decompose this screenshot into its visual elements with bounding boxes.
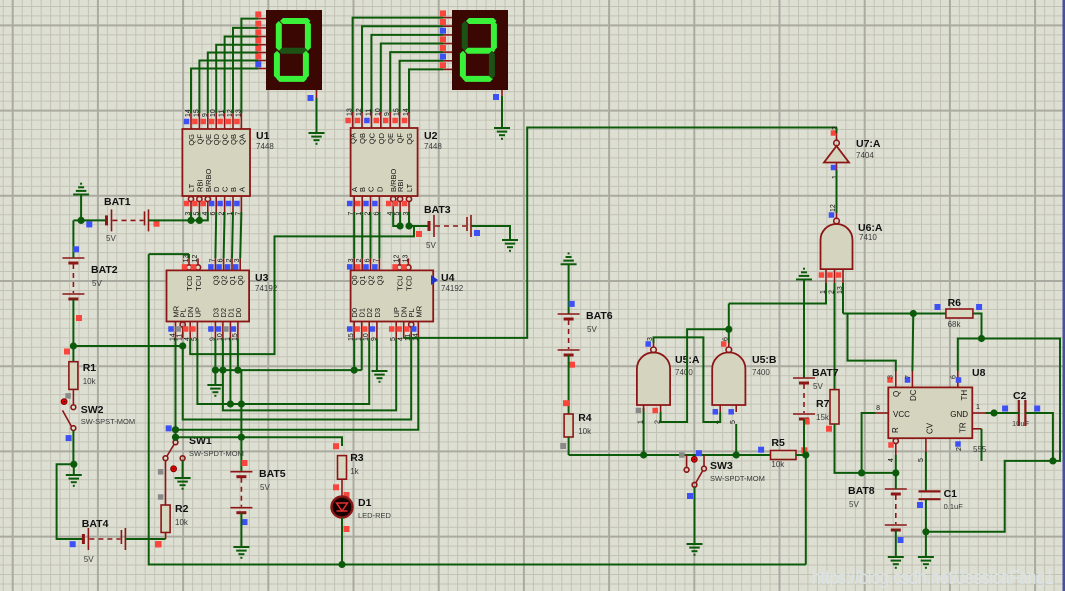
wire GND to C2 (986, 412, 1016, 414)
U3 bottom pins MR PL DN UP D3-D0 (175, 322, 177, 339)
wire DC column from R6 junction (911, 314, 914, 372)
svg-text:11: 11 (177, 334, 184, 341)
node U3 D3 junction (212, 367, 219, 374)
svg-text:74192: 74192 (441, 284, 464, 293)
wire ground stub to rail (80, 195, 82, 221)
svg-text:5V: 5V (426, 241, 436, 250)
node BAT8/R junction (892, 469, 899, 476)
svg-text:D1: D1 (358, 497, 372, 509)
svg-text:555: 555 (973, 445, 987, 454)
wire U4 D1 down (361, 339, 363, 371)
U7:A pin2 marker (831, 130, 837, 136)
svg-text:BAT2: BAT2 (91, 264, 118, 276)
svg-text:SW2: SW2 (81, 404, 104, 416)
svg-text:TCU: TCU (194, 275, 203, 290)
555 pin GND(1) right (972, 412, 985, 414)
svg-text:SW-SPST-MOM: SW-SPST-MOM (81, 417, 135, 426)
wire U3 DN to riser (190, 226, 414, 354)
wire R3 bottom to LED D1 (341, 479, 343, 496)
svg-text:10k: 10k (771, 460, 785, 469)
wire B/RBO jog to rail (199, 212, 207, 220)
wire U3 MR down to SW1 rail (175, 339, 177, 430)
svg-text:6: 6 (951, 375, 958, 379)
wire R5 right to BAT7 column (796, 454, 806, 456)
svg-text:R1: R1 (83, 362, 97, 374)
svg-text:CV: CV (926, 422, 935, 434)
ground below DISP1 (309, 132, 325, 134)
node U5:A pin1 junction (640, 451, 647, 458)
U6:A input pins 1 2 13 (825, 269, 827, 283)
battery BAT5 (230, 471, 252, 473)
svg-text:GND: GND (950, 410, 968, 419)
wire BAT8 bottom to ground (895, 530, 897, 557)
U4 bottom pins D0-D3 UP DN PL MR (353, 322, 355, 339)
ground (inverted) above BAT7 (796, 279, 812, 281)
wire BAT1 rail left corner to BAT2 column (73, 219, 81, 221)
wire rail430 U3 MR to U4 MR (176, 339, 419, 430)
555 pin DC(7) top (911, 371, 913, 387)
svg-text:LED-RED: LED-RED (358, 511, 392, 520)
wire BAT2 column from BAT1 rail (72, 220, 74, 258)
wire BAT7 bottom to R5 junction (803, 419, 805, 455)
svg-text:BAT1: BAT1 (104, 196, 131, 208)
svg-text:MR: MR (414, 305, 423, 317)
wire rail to BAT3 (409, 225, 429, 227)
svg-text:C2: C2 (1013, 390, 1027, 402)
wire D1 cathode to bottom rail (341, 518, 343, 565)
wire left bus down to bottom rail (149, 254, 342, 564)
svg-text:R4: R4 (578, 412, 592, 424)
IC U4 body (351, 270, 434, 321)
wire C2 right to loop (1025, 413, 1053, 461)
svg-text:C: C (367, 186, 376, 192)
node D0/BAT5-column on rail404 (238, 400, 245, 407)
svg-text:15k: 15k (816, 413, 830, 422)
svg-text:R2: R2 (175, 503, 189, 515)
wire C1 to ground (925, 532, 927, 557)
U4 top pins Q0-Q3 TCU TCD (353, 258, 355, 270)
svg-text:7404: 7404 (856, 151, 874, 160)
wire lower loop to C1 junction (926, 461, 1053, 532)
wire U6 pin2 through R7 (834, 283, 836, 390)
svg-text:3: 3 (348, 258, 355, 262)
svg-text:VCC: VCC (893, 410, 910, 419)
svg-text:U2: U2 (424, 130, 438, 142)
wire CV to C1 (925, 452, 927, 491)
svg-text:1: 1 (638, 420, 645, 424)
U5:A input pins 1,2 (643, 405, 645, 412)
wire U5:B output cross to U5:A input2 (661, 329, 729, 422)
wire rail455 (569, 454, 771, 456)
svg-text:10: 10 (375, 108, 382, 116)
svg-text:10k: 10k (175, 518, 189, 527)
wire U5:A output to U5:B input4 (654, 337, 721, 422)
wire rail370 D-pins (215, 369, 361, 371)
battery BAT3 (428, 221, 431, 231)
node D1-column on rail404 (227, 400, 234, 407)
ground below U4 D3 (372, 370, 388, 372)
wire U3 D3 to rail370 and ground (214, 339, 216, 386)
svg-text:R7: R7 (816, 398, 830, 410)
555 pin TH(6) top (957, 371, 959, 387)
svg-text:4: 4 (888, 458, 895, 462)
node SW2/ground/BAT4 junction (70, 461, 77, 468)
wire U6 pin13 down (842, 283, 844, 314)
resistor R5 (771, 451, 797, 460)
node BAT1 rail / ground junction (78, 217, 85, 224)
node C2-right loop junction (1049, 457, 1056, 464)
wire bottom rail right section (342, 564, 806, 566)
node U1 RBI junction (196, 217, 203, 224)
svg-text:12: 12 (394, 255, 401, 263)
svg-text:A: A (237, 187, 246, 192)
U5:B input pins 4,5 (719, 405, 721, 412)
wire U2 B/RBO jog (393, 212, 400, 226)
wire U5:B pin5 down to rail455 (735, 424, 737, 455)
svg-text:TH: TH (960, 390, 969, 401)
ground right of BAT3 (502, 239, 518, 241)
svg-text:5V: 5V (813, 382, 823, 391)
wire staircase U2 outputs to DISP2 (353, 18, 443, 113)
wire U5:A pin1 down to rail455 (643, 408, 645, 455)
wire R6 right loop down (973, 314, 982, 339)
svg-text:BAT6: BAT6 (586, 310, 613, 322)
node SW1 column on rail437 (172, 434, 179, 441)
svg-text:SW3: SW3 (710, 460, 733, 472)
wire U3 D2 to rail370 (222, 339, 224, 371)
ground below DISP2 (494, 127, 510, 129)
wire U3 D0 to rail404 (237, 339, 239, 371)
wire BAT3 right to ground (471, 226, 510, 240)
svg-text:D0: D0 (234, 308, 243, 318)
svg-text:7: 7 (209, 258, 216, 262)
svg-text:1: 1 (976, 404, 980, 411)
7-segment display DISP1 (266, 10, 322, 90)
svg-text:3: 3 (234, 258, 241, 262)
svg-text:5V: 5V (260, 483, 270, 492)
IC U3 body (167, 270, 250, 321)
svg-text:C1: C1 (944, 488, 958, 500)
svg-text:U8: U8 (972, 367, 986, 379)
wire U7 output to top-left bus (836, 128, 838, 134)
wire R1 bottom to SW2 (72, 389, 74, 404)
555 pin VCC(8) left (875, 412, 888, 414)
svg-text:7448: 7448 (256, 142, 274, 151)
U1 bottom pins LT RBI B/RBO D C B A (188, 196, 193, 201)
inverter U7:A (824, 146, 849, 163)
svg-text:U5:B: U5:B (752, 354, 777, 366)
svg-text:5V: 5V (84, 555, 94, 564)
ground below BAT5 (233, 546, 249, 548)
node U5:B output junction (725, 326, 732, 333)
ground (inverted) above BAT1 rail (73, 194, 89, 196)
LED D1 (332, 497, 353, 518)
svg-text:9: 9 (202, 113, 209, 117)
switch SW1 SW-SPDT-MOM (166, 425, 172, 431)
svg-text:12: 12 (227, 109, 234, 117)
555 pin R(4) bottom with bubble (893, 438, 898, 443)
node R6 rail junction (910, 310, 917, 317)
svg-text:BAT4: BAT4 (82, 518, 109, 530)
svg-text:LT: LT (405, 183, 414, 192)
svg-text:13: 13 (347, 108, 354, 116)
node U5:B pin5 junction (733, 451, 740, 458)
svg-text:2: 2 (226, 258, 233, 262)
wire rail419 U3 PL to U4 PL (183, 339, 412, 420)
node U3 PL column junction (179, 342, 186, 349)
wire U5:B output up (728, 304, 730, 344)
node U3 D0 junction (234, 367, 241, 374)
ground (inverted) above BAT6 (561, 263, 577, 265)
display DISP2 bottom pin to ground (501, 90, 503, 96)
resistor R6 (946, 309, 973, 318)
svg-text:TCU: TCU (396, 275, 405, 290)
U6:A output pin12 marker (829, 212, 835, 218)
wire BAT2 bottom to PL rail junction (72, 299, 74, 346)
svg-text:7400: 7400 (752, 368, 770, 377)
wire U5:B output to U6 pin1 (729, 283, 826, 304)
svg-text:QF: QF (396, 133, 405, 144)
svg-text:7410: 7410 (859, 233, 877, 242)
U5:B output pin6 marker (721, 341, 727, 347)
node U3 D2 junction (219, 367, 226, 374)
svg-text:QC: QC (367, 132, 376, 144)
svg-text:6: 6 (365, 258, 372, 262)
node U2 RBI junction (397, 222, 404, 229)
svg-text:11: 11 (219, 110, 226, 117)
capacitor C2 (1018, 400, 1020, 426)
wire R pin to rail (895, 455, 897, 473)
wire C1 bottom to corner rail (925, 499, 927, 532)
svg-text:5: 5 (730, 420, 737, 424)
U4 selection marker (431, 275, 438, 285)
svg-text:5V: 5V (587, 325, 597, 334)
svg-text:12: 12 (356, 108, 363, 116)
svg-text:U7:A: U7:A (856, 138, 881, 150)
wire U3 TCD up-left to left bus (149, 253, 189, 255)
node D1 cathode junction on bottom rail (338, 561, 345, 568)
svg-text:SW-SPDT-MOM: SW-SPDT-MOM (189, 449, 244, 458)
svg-text:12: 12 (192, 255, 199, 263)
ground below SW3 (687, 543, 703, 545)
wire staircase U1 outputs to DISP1 (191, 69, 258, 114)
wire TR down to lower rail (981, 429, 983, 461)
wire U2 A B C D down to U4 Q0-Q3 (353, 212, 355, 258)
IC U1 body (182, 129, 250, 196)
555 pin Q(3) top (895, 371, 897, 387)
wire U2 LT down to BAT3 rail (408, 212, 410, 226)
wire R6 stub left (913, 313, 946, 315)
wire pin13 rail to R6 (843, 313, 913, 315)
wire BAT8 top (895, 473, 897, 489)
svg-text:Q2: Q2 (367, 275, 376, 285)
wire long loop U7 output to U4 DN (404, 128, 837, 338)
svg-text:Q0: Q0 (236, 275, 245, 285)
display DISP1 bottom pin to ground (316, 90, 318, 98)
svg-text:13: 13 (235, 109, 242, 117)
resistor R4 (564, 414, 573, 437)
NAND gate U5:B (712, 352, 745, 405)
svg-text:2: 2 (956, 447, 963, 451)
wire junction right to far-right loop (982, 339, 1061, 461)
display DISP1 left pin stubs (258, 18, 266, 20)
svg-text:U1: U1 (256, 130, 270, 142)
wire U4 D0 to rail370 (353, 339, 355, 371)
svg-text:Q: Q (892, 391, 901, 397)
svg-text:15: 15 (193, 109, 200, 117)
capacitor C1 (919, 490, 941, 492)
resistor R7 (830, 390, 839, 424)
wire rail to BAT1 left plate (81, 219, 106, 221)
battery BAT6 (558, 313, 580, 315)
battery BAT8 (885, 488, 907, 490)
resistor R1 (69, 362, 78, 390)
wire rail404 U3 UP to U4 D2 (197, 339, 369, 405)
wire SW1 right throw to ground (182, 461, 184, 478)
wire BAT5 bottom to ground (240, 513, 242, 547)
svg-text:15: 15 (394, 108, 401, 116)
wire BAT1 right plate to U1 LT/RBI pins (148, 219, 199, 221)
svg-text:5V: 5V (106, 234, 116, 243)
wire VCC rail to BAT8 top (862, 472, 896, 474)
wire junction to 555 TH (958, 339, 982, 372)
svg-text:5V: 5V (92, 279, 102, 288)
7-segment display DISP2 (452, 10, 508, 90)
svg-text:8: 8 (876, 405, 880, 412)
wire R7 bottom to VCC rail (835, 424, 862, 473)
svg-text:4: 4 (398, 337, 405, 341)
wire branch down to 555 Q (848, 314, 896, 372)
node BAT5/R3 rail junction (238, 434, 245, 441)
svg-text:QG: QG (405, 133, 414, 145)
svg-text:https://blog.csdn.net/JessicaF: https://blog.csdn.net/JessicaFang1 (812, 567, 1054, 589)
NAND gate U5:A (637, 352, 670, 405)
node MR/SW1 junction (172, 426, 179, 433)
resistor R3 (338, 456, 347, 480)
555 pin TR(2) right (972, 428, 981, 430)
wire BAT5 column (240, 404, 242, 472)
svg-text:3: 3 (888, 375, 895, 379)
wire junction to ground (73, 464, 75, 475)
wire U3 D1 down to rail404 (229, 339, 231, 405)
U2 top pins QA-QG (352, 112, 354, 128)
wire U2 RBI down to BAT3 rail (399, 212, 401, 226)
wire VCC to supply rail (862, 413, 875, 473)
svg-text:U3: U3 (255, 272, 269, 284)
svg-text:R: R (891, 427, 900, 433)
IC U8 555 body (888, 387, 972, 438)
NAND gate U6:A (821, 224, 853, 269)
svg-text:TCD: TCD (185, 275, 194, 291)
svg-text:QB: QB (358, 133, 367, 144)
U7:A pin1 marker (831, 165, 837, 171)
svg-text:7448: 7448 (424, 142, 442, 151)
wire RBI pin down to rail (198, 212, 200, 220)
svg-text:SW-SPDT-MOM: SW-SPDT-MOM (710, 474, 765, 483)
battery BAT7 (793, 377, 815, 379)
svg-text:5: 5 (918, 458, 925, 462)
svg-text:0.1uF: 0.1uF (944, 502, 964, 511)
wire ground to BAT7 (803, 280, 805, 379)
wire U7 input to U6 output (836, 170, 838, 213)
svg-text:10k: 10k (83, 377, 97, 386)
node U2 LT junction (405, 222, 412, 229)
wire rail410 U3 D2 to U4 UP (223, 339, 396, 411)
svg-text:10uF: 10uF (1012, 419, 1030, 428)
svg-text:BAT7: BAT7 (812, 367, 839, 379)
wire R2 bottom stub (165, 533, 167, 540)
svg-text:1k: 1k (350, 467, 359, 476)
node R5/BAT7 junction (802, 451, 809, 458)
svg-text:7: 7 (373, 258, 380, 262)
svg-text:10k: 10k (578, 427, 592, 436)
svg-text:D: D (375, 186, 384, 192)
node U4 D0 junction (351, 367, 358, 374)
wire U4 D3 to ground (376, 339, 378, 372)
node GND/C2 junction (990, 409, 997, 416)
U5:A output pin3 marker (645, 341, 651, 347)
svg-text:14: 14 (185, 109, 192, 117)
svg-text:QD: QD (377, 132, 386, 144)
node U1 LT junction (187, 217, 194, 224)
node R6/TH junction (978, 335, 985, 342)
display DISP2 left pin stubs (443, 17, 452, 19)
svg-text:BAT3: BAT3 (424, 204, 451, 216)
svg-text:TCD: TCD (404, 275, 413, 291)
wire LT pin down to rail (190, 212, 192, 220)
battery BAT1 (105, 215, 108, 225)
svg-text:6: 6 (218, 258, 225, 262)
switch SW3 SW-SPDT-MOM (679, 452, 685, 458)
svg-text:QA: QA (237, 134, 246, 145)
IC U2 body (351, 128, 418, 196)
svg-text:BAT8: BAT8 (848, 485, 875, 497)
sheet border right edge (1063, 0, 1065, 591)
wire BAT6 bottom to R4 top (568, 355, 570, 414)
U3 top pins TCD TCU Q3-Q0 (186, 265, 191, 270)
svg-text:2: 2 (356, 258, 363, 262)
U1 top pins QG-QA (190, 113, 192, 129)
node VCC rail junction (858, 469, 865, 476)
svg-text:BAT5: BAT5 (259, 468, 286, 480)
battery BAT4 (82, 534, 85, 544)
wire SW3 common to ground (694, 487, 696, 544)
svg-text:QA: QA (349, 133, 358, 144)
wire rail to U3 PL column (73, 345, 182, 347)
U2 bottom pins A B C D B/RBO RBI LT (353, 196, 355, 212)
svg-text:1: 1 (820, 290, 827, 294)
svg-text:RBI: RBI (396, 179, 405, 192)
svg-text:68k: 68k (948, 320, 962, 329)
svg-text:QE: QE (386, 133, 395, 144)
wire junction down to R1 (72, 346, 74, 362)
svg-text:9: 9 (384, 112, 391, 116)
svg-text:7400: 7400 (675, 368, 693, 377)
svg-text:7: 7 (905, 375, 912, 379)
ground below SW1 (175, 477, 191, 479)
wire junction left and down to BAT4 (57, 464, 84, 539)
node C1/loop junction (922, 528, 929, 535)
battery BAT2 (62, 257, 84, 259)
svg-text:D3: D3 (373, 308, 382, 318)
svg-text:11: 11 (365, 109, 372, 116)
555 pin CV(5) bottom (925, 438, 927, 452)
svg-text:TR: TR (959, 422, 968, 433)
wire SW1 left throw to R2 top (165, 461, 167, 505)
ground below U3 D3 (207, 384, 223, 386)
wire C2 left plate (1016, 412, 1019, 414)
node BAT2/R1/PL-rail junction (70, 342, 77, 349)
